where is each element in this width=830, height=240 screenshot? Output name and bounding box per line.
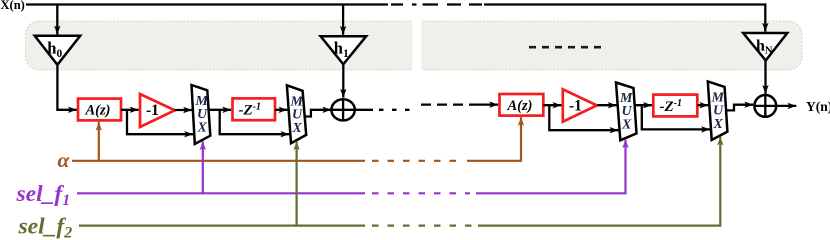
shaded band (coefficient row) (26, 21, 803, 70)
wire: drop from bus to h1 (342, 5, 344, 35)
wire: MUX1 output to -Z box (209, 109, 231, 111)
wire: MUX2 output step up into adder 1 (305, 110, 331, 117)
wire: dashed link into stage 2 A(z) (421, 103, 476, 105)
wire: sel_f2 line solid left (79, 225, 365, 227)
svg-text:Y(n): Y(n) (806, 99, 830, 114)
wire: alpha line right corner up into A(z) stage 2 (467, 117, 521, 161)
delay -Z^-1 stage 2 (653, 95, 697, 117)
wire: sel_f2 branch up into MUX2 stage 1 (296, 141, 298, 225)
svg-text:-1: -1 (146, 102, 159, 119)
wire: alpha line dashed middle (372, 160, 462, 162)
mux MUX2 stage 1 (287, 85, 306, 143)
wire: MUX2 stage 2 output step up into adder 2 (726, 105, 753, 111)
svg-text:A(z): A(z) (85, 103, 111, 119)
wire: MUX1 stage 2 output to -Z box (635, 104, 652, 106)
svg-text:α: α (58, 148, 71, 172)
wire: -1 output into MUX1 upper input (175, 109, 193, 111)
wire: -Z stage 2 output into MUX2 upper input (697, 104, 708, 106)
wire: sel_f2 right corner up into MUX2 stage 2 (478, 137, 720, 226)
svg-text:sel_f2: sel_f2 (18, 214, 73, 240)
wire: sel_f1 right corner up into MUX1 stage 2 (476, 139, 626, 193)
svg-text:X: X (197, 121, 208, 136)
delay -Z^-1 stage 1 (233, 98, 276, 120)
wire: top bus solid right with corner down to hN (484, 5, 765, 32)
wire: h0 output down and right into A(z) (57, 64, 76, 110)
multiplier hN (743, 33, 787, 61)
svg-text:X(n): X(n) (1, 0, 25, 12)
wire: top bus solid left (26, 3, 388, 5)
mux MUX1 stage 2 (616, 83, 637, 141)
wire: -Z output into MUX2 upper input (275, 109, 287, 111)
svg-text:X: X (713, 117, 724, 132)
wire: output arrow to Y(n) (776, 105, 796, 107)
svg-text:X: X (292, 121, 303, 136)
wire: A(z) to -1 amplifier (121, 109, 139, 111)
wire: hN output down into adder 2 (764, 60, 766, 94)
multiplier h1 (321, 36, 367, 64)
wire: top bus dashed middle (391, 3, 482, 5)
wire: adder 1 output with ellipsis dots (355, 109, 373, 111)
wire: drop from bus to h0 (56, 5, 58, 35)
wire: A(z) stage 2 to -1 amplifier (543, 104, 561, 106)
wire: bypass stage 2 down to MUX1 lower input (549, 105, 618, 130)
filter block A(z) stage 1 (78, 99, 121, 121)
wire: alpha line solid left (72, 160, 365, 162)
adder 2 (754, 95, 776, 117)
gap between shaded bands (412, 15, 421, 76)
multiplier h0 (35, 36, 80, 65)
mux MUX2 stage 2 (708, 81, 728, 140)
gain -1 stage 2 (563, 89, 597, 121)
ellipsis dashes inside band 2 (529, 46, 604, 49)
svg-text:-1: -1 (569, 98, 582, 115)
wire: -1 output into MUX1 stage 2 upper input (597, 104, 616, 106)
filter block A(z) stage 2 (500, 94, 544, 116)
wire: sel_f2 line dashed middle (372, 225, 472, 227)
gain -1 stage 1 (140, 94, 175, 127)
wire: bypass MUX1 output down to MUX2 lower input (220, 110, 290, 134)
wire: sel_f1 branch up into MUX1 stage 1 (202, 141, 204, 193)
wire: sel_f1 line dashed middle (372, 192, 470, 194)
svg-text:A(z): A(z) (507, 98, 533, 114)
svg-text:X: X (621, 118, 632, 133)
wire: bypass MUX1 stage 2 output down to MUX2 lower input (642, 105, 710, 129)
wire: alpha branch up into A(z) stage 1 (98, 122, 100, 161)
svg-text:sel_f1: sel_f1 (16, 181, 71, 209)
wire: bypass from A(z) output down to MUX1 lower input (127, 110, 193, 134)
adder 1 (331, 99, 354, 120)
mux MUX1 stage 1 (192, 85, 211, 144)
wire: sel_f1 line solid left (77, 192, 365, 194)
wire: h1 output down into adder 1 (342, 64, 344, 98)
